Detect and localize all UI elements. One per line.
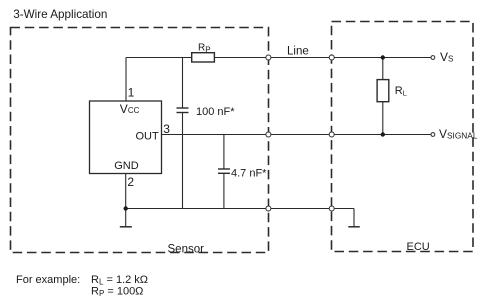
- ground symbol (ECU): [348, 226, 360, 228]
- svg-text:ECU: ECU: [407, 241, 430, 253]
- svg-text:Sensor: Sensor: [168, 244, 205, 256]
- svg-text:GND: GND: [114, 160, 139, 172]
- resistor RL: [377, 80, 389, 102]
- resistor RP: [192, 53, 215, 62]
- junction dot node Vsignal/RL: [381, 132, 385, 136]
- svg-text:100 nF*: 100 nF*: [196, 106, 235, 118]
- node: ECU boundary, signal wire: [329, 132, 334, 137]
- wire: top bus right segment (Line to Vs): [214, 57, 432, 59]
- node: sensor boundary, ground wire: [266, 206, 271, 211]
- wire: GND pin 2 vertical: [125, 174, 127, 227]
- svg-text:For example:: For example:: [16, 274, 80, 286]
- svg-text:RP = 100Ω: RP = 100Ω: [91, 285, 143, 298]
- node: sensor boundary, signal wire: [266, 132, 271, 137]
- svg-text:1: 1: [128, 86, 135, 100]
- wire: top bus left segment: [126, 57, 192, 59]
- svg-text:3: 3: [163, 122, 170, 136]
- node: ECU boundary, line wire: [329, 55, 334, 60]
- IC U1 box: [90, 101, 162, 174]
- sensor boundary box: [11, 28, 269, 253]
- terminal Vs: [431, 56, 435, 60]
- capacitor C2 bottom lead: [223, 173, 225, 208]
- wire: VCC pin 1 vertical: [125, 58, 127, 102]
- terminal Vsignal: [431, 133, 435, 137]
- wire: ECU ground drop: [353, 209, 355, 227]
- capacitor C1 plates: [177, 107, 189, 109]
- ground symbol (sensor): [120, 226, 132, 228]
- node: ECU boundary, ground wire: [329, 206, 334, 211]
- capacitor C1 bottom lead: [182, 113, 184, 209]
- svg-text:3-Wire Application: 3-Wire Application: [13, 8, 107, 21]
- svg-text:Line: Line: [287, 46, 309, 58]
- resistor RL leads: [382, 58, 384, 80]
- junction dot node GND: [124, 206, 128, 210]
- svg-text:4.7 nF*: 4.7 nF*: [231, 168, 267, 180]
- capacitor C1 100nF top lead: [182, 58, 184, 109]
- capacitor C2 plates: [218, 168, 230, 170]
- junction dot node Vs/RL: [381, 55, 385, 59]
- capacitor C2 4.7nF top lead: [223, 135, 225, 170]
- wire: ground bus: [126, 208, 354, 210]
- svg-text:OUT: OUT: [136, 131, 160, 143]
- wire: OUT pin 3 horizontal: [162, 134, 433, 136]
- node: sensor boundary, line wire: [266, 55, 271, 60]
- svg-text:2: 2: [127, 175, 134, 189]
- ECU boundary box: [332, 22, 474, 252]
